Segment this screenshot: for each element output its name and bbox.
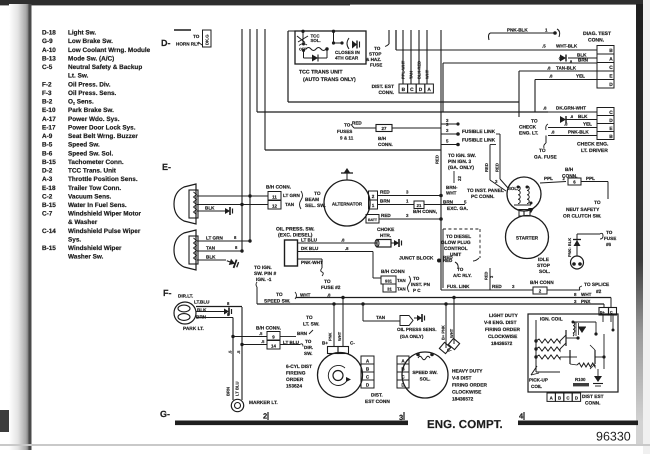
svg-text:6-CYL DIST: 6-CYL DIST bbox=[286, 364, 312, 370]
svg-text:Vacuum Sens.: Vacuum Sens. bbox=[68, 193, 112, 200]
svg-text:PNK-BLK: PNK-BLK bbox=[568, 130, 589, 135]
svg-text:PPL: PPL bbox=[544, 176, 553, 181]
svg-text:A-3: A-3 bbox=[42, 176, 53, 183]
svg-text:B/H: B/H bbox=[378, 136, 387, 141]
svg-text:TO: TO bbox=[344, 123, 351, 128]
svg-text:B: B bbox=[609, 48, 613, 54]
svg-text:C: C bbox=[609, 65, 613, 71]
svg-text:V-8 DIST: V-8 DIST bbox=[452, 376, 472, 382]
svg-text:LIGHT DUTY: LIGHT DUTY bbox=[489, 313, 519, 319]
svg-text:B/H CONN: B/H CONN bbox=[381, 269, 405, 275]
svg-text:RED: RED bbox=[484, 271, 489, 280]
svg-text:LT GRN: LT GRN bbox=[283, 193, 300, 198]
svg-text:FUSIBLE LINK: FUSIBLE LINK bbox=[462, 138, 496, 144]
svg-text:4TH GEAR: 4TH GEAR bbox=[335, 56, 359, 61]
svg-text:BEAM: BEAM bbox=[305, 197, 319, 203]
svg-text:(AUTO TRANS ONLY): (AUTO TRANS ONLY) bbox=[303, 77, 356, 83]
svg-text:F-2: F-2 bbox=[42, 81, 52, 88]
svg-text:YEL: YEL bbox=[576, 74, 585, 79]
svg-text:B-13: B-13 bbox=[42, 55, 56, 62]
svg-text:P C: P C bbox=[413, 288, 421, 293]
svg-text:A: A bbox=[609, 57, 613, 63]
svg-text:153624: 153624 bbox=[286, 384, 302, 390]
svg-text:DIAG. TEST: DIAG. TEST bbox=[583, 31, 611, 37]
svg-text:STOP: STOP bbox=[537, 263, 551, 269]
svg-text:E-17: E-17 bbox=[42, 124, 56, 131]
svg-text:WHT: WHT bbox=[449, 328, 454, 338]
svg-text:YEL: YEL bbox=[583, 122, 592, 127]
svg-text:E-10: E-10 bbox=[42, 107, 56, 114]
svg-text:TO: TO bbox=[374, 46, 381, 51]
svg-text:PNK: PNK bbox=[328, 332, 333, 341]
svg-text:BRN-: BRN- bbox=[446, 185, 458, 190]
svg-text:A-10: A-10 bbox=[42, 47, 56, 54]
svg-text:PARK LT.: PARK LT. bbox=[183, 326, 204, 332]
svg-text:O2 Sens.: O2 Sens. bbox=[68, 99, 94, 106]
svg-text:COIL: COIL bbox=[531, 384, 542, 389]
svg-text:B-15: B-15 bbox=[42, 202, 56, 209]
svg-text:TO: TO bbox=[305, 339, 312, 344]
svg-text:TAN: TAN bbox=[285, 202, 295, 207]
svg-text:D-: D- bbox=[161, 38, 171, 48]
svg-text:TO: TO bbox=[314, 191, 321, 197]
svg-text:CONN.: CONN. bbox=[585, 401, 600, 407]
svg-text:Trailer Tow Conn.: Trailer Tow Conn. bbox=[68, 185, 121, 192]
svg-text:CLOSES IN: CLOSES IN bbox=[335, 50, 360, 55]
svg-text:E-18: E-18 bbox=[42, 185, 56, 192]
svg-text:SW. PIN #: SW. PIN # bbox=[254, 271, 276, 277]
svg-text:Light Sw.: Light Sw. bbox=[68, 30, 96, 37]
svg-text:ENG. LT.: ENG. LT. bbox=[519, 131, 538, 137]
svg-text:SPEED SW.: SPEED SW. bbox=[264, 299, 290, 305]
svg-text:HORN RLY: HORN RLY bbox=[176, 42, 200, 47]
svg-text:C: C bbox=[410, 87, 414, 93]
svg-text:FUSE: FUSE bbox=[604, 236, 616, 241]
svg-text:WHT: WHT bbox=[300, 293, 311, 298]
svg-text:TO: TO bbox=[531, 119, 538, 125]
svg-text:C-14: C-14 bbox=[42, 228, 56, 235]
svg-text:E-: E- bbox=[162, 162, 171, 172]
svg-text:.5: .5 bbox=[542, 44, 546, 49]
svg-text:& HAZ.: & HAZ. bbox=[366, 57, 381, 62]
svg-text:2: 2 bbox=[372, 194, 375, 199]
svg-text:IGN. COIL: IGN. COIL bbox=[540, 317, 563, 323]
svg-text:TCC Trans. Unit: TCC Trans. Unit bbox=[68, 168, 117, 175]
svg-text:TO IGN.: TO IGN. bbox=[254, 265, 272, 271]
svg-text:BRN: BRN bbox=[443, 200, 454, 205]
svg-text:TAN: TAN bbox=[397, 287, 406, 292]
svg-text:DK.GRN-WHT: DK.GRN-WHT bbox=[556, 106, 586, 111]
svg-text:18436572: 18436572 bbox=[491, 341, 513, 347]
svg-text:PPL: PPL bbox=[586, 176, 595, 181]
svg-text:PNK-BLK: PNK-BLK bbox=[507, 28, 528, 33]
svg-text:TO IGN. SW.: TO IGN. SW. bbox=[448, 153, 476, 159]
svg-text:Tachometer Conn.: Tachometer Conn. bbox=[68, 159, 124, 166]
svg-text:PIN IGN. 3: PIN IGN. 3 bbox=[448, 159, 472, 165]
svg-text:B-15: B-15 bbox=[42, 159, 56, 166]
svg-text:.8: .8 bbox=[570, 115, 573, 119]
svg-text:Mode Sw. (A/C): Mode Sw. (A/C) bbox=[68, 55, 114, 62]
svg-text:Windshield Wiper Motor: Windshield Wiper Motor bbox=[68, 211, 142, 218]
svg-text:RED: RED bbox=[443, 258, 452, 263]
svg-text:ENG. COMPT.: ENG. COMPT. bbox=[427, 419, 503, 431]
svg-text:B: B bbox=[558, 396, 561, 401]
svg-text:B+: B+ bbox=[600, 311, 605, 315]
svg-text:B-6: B-6 bbox=[42, 150, 53, 157]
svg-text:LT. SW.: LT. SW. bbox=[303, 322, 319, 328]
svg-text:Low Coolant Wrng. Module: Low Coolant Wrng. Module bbox=[68, 47, 151, 54]
svg-text:CONN.: CONN. bbox=[378, 142, 393, 147]
svg-text:RED: RED bbox=[492, 284, 502, 289]
svg-text:LT GRN: LT GRN bbox=[206, 236, 223, 241]
svg-text:DK BLU: DK BLU bbox=[301, 246, 319, 251]
svg-text:DK.G: DK.G bbox=[205, 35, 210, 45]
svg-text:RED: RED bbox=[435, 155, 440, 164]
svg-text:14: 14 bbox=[271, 343, 276, 348]
svg-text:GA. FUSE: GA. FUSE bbox=[534, 155, 557, 161]
svg-text:BRN: BRN bbox=[226, 387, 231, 396]
svg-text:Power Wdo. Sys.: Power Wdo. Sys. bbox=[68, 116, 120, 123]
svg-text:DIST. EST: DIST. EST bbox=[372, 84, 394, 90]
svg-text:Oil Press. Sens.: Oil Press. Sens. bbox=[68, 90, 117, 97]
svg-text:TO DIESEL: TO DIESEL bbox=[446, 234, 471, 240]
svg-text:PNK- BLK: PNK- BLK bbox=[567, 238, 572, 257]
svg-text:STARTER: STARTER bbox=[516, 236, 539, 242]
svg-text:ORDER: ORDER bbox=[286, 377, 304, 383]
svg-text:PC CONN.: PC CONN. bbox=[471, 194, 494, 200]
svg-text:BLK-RED: BLK-RED bbox=[417, 61, 422, 79]
svg-text:CHECK ENG.: CHECK ENG. bbox=[577, 142, 609, 148]
svg-text:RED: RED bbox=[380, 190, 390, 195]
svg-text:Low Brake Sw.: Low Brake Sw. bbox=[68, 38, 113, 45]
svg-text:RED: RED bbox=[484, 163, 489, 172]
svg-text:LT. DRIVER: LT. DRIVER bbox=[581, 148, 608, 154]
svg-text:TO: TO bbox=[606, 230, 613, 235]
svg-text:WHT: WHT bbox=[581, 292, 592, 297]
svg-text:G-: G- bbox=[160, 409, 170, 419]
svg-text:C-2: C-2 bbox=[42, 193, 53, 200]
svg-text:Park Brake Sw.: Park Brake Sw. bbox=[68, 107, 114, 114]
svg-text:21: 21 bbox=[417, 203, 422, 208]
svg-text:WHT: WHT bbox=[337, 331, 342, 341]
svg-text:IGN. -1: IGN. -1 bbox=[256, 277, 272, 283]
svg-text:931: 931 bbox=[385, 278, 393, 283]
svg-text:INST. PN: INST. PN bbox=[411, 282, 431, 287]
svg-text:OIL PRESS SENS.: OIL PRESS SENS. bbox=[397, 327, 436, 332]
svg-text:SW.: SW. bbox=[304, 351, 312, 356]
svg-text:D: D bbox=[609, 82, 613, 88]
svg-text:11: 11 bbox=[272, 194, 277, 199]
svg-text:CONTROL: CONTROL bbox=[444, 246, 468, 252]
svg-text:RED: RED bbox=[381, 213, 391, 218]
svg-text:B-5: B-5 bbox=[42, 142, 53, 149]
svg-text:D: D bbox=[609, 118, 613, 124]
svg-text:TO: TO bbox=[193, 34, 200, 39]
svg-text:Throttle Position Sens.: Throttle Position Sens. bbox=[68, 176, 138, 183]
svg-text:Neutral Safety & Backup: Neutral Safety & Backup bbox=[68, 64, 142, 71]
svg-text:Power Door Lock Sys.: Power Door Lock Sys. bbox=[68, 124, 136, 131]
svg-text:B/H: B/H bbox=[565, 167, 574, 173]
svg-text:IDLE: IDLE bbox=[538, 257, 550, 263]
svg-text:1: 1 bbox=[372, 203, 375, 208]
svg-text:FUSE #2: FUSE #2 bbox=[321, 285, 341, 291]
svg-text:BLK: BLK bbox=[205, 206, 215, 211]
svg-text:3: 3 bbox=[399, 413, 403, 422]
svg-text:R100: R100 bbox=[575, 377, 586, 382]
svg-text:B/H CONN: B/H CONN bbox=[530, 280, 554, 286]
svg-text:TO: TO bbox=[306, 315, 313, 321]
svg-text:C: C bbox=[609, 110, 613, 116]
svg-text:BLK: BLK bbox=[578, 114, 588, 119]
svg-text:B/H CONN,: B/H CONN, bbox=[413, 209, 437, 214]
svg-text:SOL.: SOL. bbox=[539, 269, 550, 275]
svg-text:A/C RLY.: A/C RLY. bbox=[453, 273, 472, 278]
svg-text:CLOCKWISE: CLOCKWISE bbox=[452, 390, 482, 396]
svg-text:SOL.: SOL. bbox=[420, 377, 431, 382]
svg-text:Windshield Wiper: Windshield Wiper bbox=[68, 245, 122, 252]
svg-text:TO: TO bbox=[276, 292, 283, 298]
svg-text:B-2: B-2 bbox=[42, 99, 53, 106]
svg-text:WHT: WHT bbox=[446, 191, 457, 196]
svg-text:2: 2 bbox=[263, 412, 267, 421]
svg-text:TCC TRANS UNIT: TCC TRANS UNIT bbox=[299, 70, 343, 76]
svg-text:TAN: TAN bbox=[409, 71, 414, 79]
svg-text:PNK-WHT: PNK-WHT bbox=[301, 260, 323, 265]
svg-text:PICK-UP: PICK-UP bbox=[529, 378, 548, 383]
svg-text:TO: TO bbox=[539, 148, 546, 154]
svg-text:18436572: 18436572 bbox=[452, 397, 474, 403]
svg-text:TAN: TAN bbox=[397, 278, 406, 283]
svg-text:ALTERNATOR: ALTERNATOR bbox=[332, 202, 363, 207]
svg-text:22: 22 bbox=[457, 176, 462, 181]
svg-text:A-17: A-17 bbox=[42, 116, 56, 123]
svg-text:CHECK: CHECK bbox=[519, 125, 537, 131]
svg-text:TO INST. PANEL: TO INST. PANEL bbox=[467, 188, 504, 194]
svg-text:BRN: BRN bbox=[578, 58, 589, 63]
svg-text:Speed Sw. Sol.: Speed Sw. Sol. bbox=[68, 150, 113, 157]
svg-text:Washer Sw.: Washer Sw. bbox=[68, 254, 104, 261]
svg-text:C-7: C-7 bbox=[42, 211, 53, 218]
svg-text:TO SPLICE: TO SPLICE bbox=[584, 282, 610, 288]
svg-text:BLK: BLK bbox=[206, 255, 216, 260]
svg-text:Water In Fuel Sens.: Water In Fuel Sens. bbox=[68, 202, 127, 209]
svg-text:D-18: D-18 bbox=[42, 30, 56, 37]
svg-text:B: B bbox=[609, 134, 613, 140]
svg-text:12: 12 bbox=[272, 203, 277, 208]
svg-text:Seat Belt Wrng. Buzzer: Seat Belt Wrng. Buzzer bbox=[68, 133, 138, 140]
svg-text:TAN: TAN bbox=[376, 315, 386, 320]
svg-text:HEAVY DUTY: HEAVY DUTY bbox=[452, 369, 483, 375]
svg-text:SOL.: SOL. bbox=[311, 38, 321, 43]
svg-text:〈: 〈 bbox=[557, 56, 561, 61]
svg-text:27: 27 bbox=[382, 126, 387, 131]
svg-text:F-: F- bbox=[163, 288, 172, 298]
svg-text:CONN.: CONN. bbox=[379, 90, 394, 96]
svg-text:BRN: BRN bbox=[380, 199, 391, 204]
svg-text:B/H CONN.: B/H CONN. bbox=[266, 185, 291, 191]
svg-text:TAN-BLK: TAN-BLK bbox=[556, 66, 577, 71]
svg-text:BATT: BATT bbox=[368, 218, 378, 222]
svg-text:CLOCKWISE: CLOCKWISE bbox=[488, 334, 518, 340]
svg-text:LT BLU: LT BLU bbox=[235, 381, 240, 396]
svg-text:Sys.: Sys. bbox=[68, 236, 81, 243]
svg-text:Speed Sw.: Speed Sw. bbox=[68, 142, 100, 149]
svg-text:RED: RED bbox=[495, 163, 500, 172]
svg-text:EST CONN: EST CONN bbox=[365, 399, 390, 405]
svg-text:9 & 11: 9 & 11 bbox=[340, 136, 354, 141]
svg-text:B: B bbox=[402, 87, 406, 93]
svg-text:A-9: A-9 bbox=[42, 133, 53, 140]
svg-text:PNX: PNX bbox=[581, 299, 591, 304]
svg-text:B+ PNK: B+ PNK bbox=[441, 325, 446, 340]
svg-text:& Washer: & Washer bbox=[68, 219, 98, 226]
svg-text:#6: #6 bbox=[606, 242, 612, 247]
svg-text:FIRING ORDER: FIRING ORDER bbox=[485, 327, 520, 333]
svg-text:(GA. ONLY): (GA. ONLY) bbox=[448, 165, 474, 171]
svg-text:SPEED SW.: SPEED SW. bbox=[412, 370, 437, 375]
svg-text:G-9: G-9 bbox=[42, 38, 53, 45]
svg-text:V-8 ENG. DIST: V-8 ENG. DIST bbox=[484, 320, 517, 326]
svg-text:DIST.: DIST. bbox=[371, 393, 383, 399]
svg-text:JUNCT BLOCK: JUNCT BLOCK bbox=[399, 256, 434, 262]
svg-text:LT.BLU: LT.BLU bbox=[194, 300, 210, 305]
svg-text:Windshield Pulse Wiper: Windshield Pulse Wiper bbox=[68, 228, 141, 235]
svg-text:MARKER LT.: MARKER LT. bbox=[249, 400, 278, 406]
svg-text:FUSE: FUSE bbox=[370, 63, 382, 68]
svg-text:FIRING ORDER: FIRING ORDER bbox=[452, 383, 487, 389]
svg-text:WHT: WHT bbox=[425, 69, 430, 79]
svg-text:Lt. Sw.: Lt. Sw. bbox=[68, 73, 89, 80]
svg-text:D: D bbox=[419, 87, 423, 93]
svg-text:C-: C- bbox=[350, 341, 355, 346]
svg-text:D-2: D-2 bbox=[42, 168, 53, 175]
svg-text:A: A bbox=[427, 87, 431, 93]
svg-text:DIR.: DIR. bbox=[304, 345, 313, 350]
svg-text:PPL-WHT: PPL-WHT bbox=[401, 60, 406, 79]
svg-text:STOP: STOP bbox=[369, 52, 381, 57]
svg-text:D: D bbox=[575, 396, 578, 401]
svg-text:TO: TO bbox=[457, 267, 464, 272]
svg-text:BRN: BRN bbox=[297, 331, 308, 336]
svg-text:C: C bbox=[610, 311, 613, 315]
svg-text:GLOW PLUG: GLOW PLUG bbox=[441, 240, 471, 246]
svg-text:TO: TO bbox=[324, 279, 331, 285]
svg-text:TO: TO bbox=[413, 276, 420, 281]
svg-text:DIR.LT.: DIR.LT. bbox=[178, 294, 193, 299]
svg-text:CHOKE: CHOKE bbox=[377, 227, 395, 233]
svg-text:FUSES: FUSES bbox=[337, 129, 352, 134]
svg-text:RED: RED bbox=[352, 121, 362, 126]
svg-text:WHT-BLK: WHT-BLK bbox=[556, 44, 578, 49]
svg-text:F-3: F-3 bbox=[42, 90, 52, 97]
svg-text:TO: TO bbox=[594, 200, 601, 206]
svg-text:C-5: C-5 bbox=[42, 64, 53, 71]
svg-text:FUSIBLE LINK: FUSIBLE LINK bbox=[462, 129, 496, 135]
svg-text:#2: #2 bbox=[596, 289, 602, 295]
svg-text:LT BLU: LT BLU bbox=[301, 238, 318, 243]
svg-text:SEL. SW.: SEL. SW. bbox=[305, 203, 326, 209]
svg-text:(GA ONLY): (GA ONLY) bbox=[400, 334, 424, 339]
svg-text:B-15: B-15 bbox=[42, 245, 56, 252]
svg-text:OR CLUTCH SW.: OR CLUTCH SW. bbox=[563, 214, 601, 220]
svg-text:CONN.: CONN. bbox=[588, 38, 605, 44]
svg-text:EXC. GA.: EXC. GA. bbox=[447, 206, 468, 212]
svg-text:DIST EST: DIST EST bbox=[582, 394, 604, 400]
svg-text:96330: 96330 bbox=[596, 430, 631, 444]
svg-text:FUS. LINK: FUS. LINK bbox=[447, 284, 470, 289]
svg-text:FIREING: FIREING bbox=[286, 371, 306, 377]
svg-text:31: 31 bbox=[387, 287, 392, 292]
svg-text:NEUT SAFETY: NEUT SAFETY bbox=[566, 207, 600, 213]
svg-text:TAN: TAN bbox=[206, 246, 216, 251]
svg-text:HTR.: HTR. bbox=[380, 233, 391, 239]
svg-text:Oil Press. Div.: Oil Press. Div. bbox=[68, 81, 111, 88]
